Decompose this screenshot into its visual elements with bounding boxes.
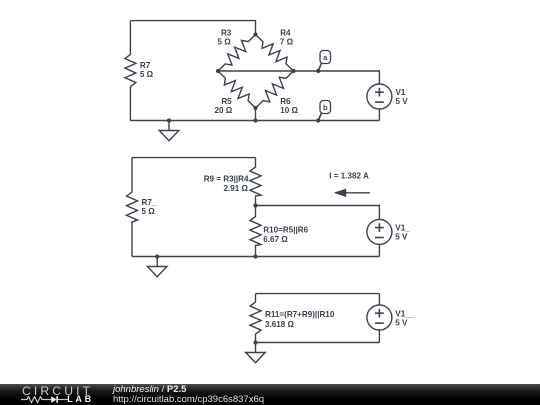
svg-text:R3: R3 (221, 28, 232, 37)
footer bar (0, 384, 540, 405)
svg-text:5 V: 5 V (396, 97, 409, 106)
CircuitLab logo (22, 384, 93, 398)
svg-text:R4: R4 (280, 28, 291, 37)
resistor R11 (250, 294, 335, 343)
resistor R10 (250, 206, 309, 257)
node a (316, 51, 330, 74)
svg-text:7 Ω: 7 Ω (280, 37, 294, 46)
wire (256, 206, 380, 220)
svg-text:I = 1.382 A: I = 1.382 A (329, 171, 369, 180)
svg-text:b: b (323, 103, 328, 112)
ground (147, 254, 167, 276)
svg-text:V1_: V1_ (395, 223, 410, 232)
ground (246, 340, 266, 362)
wire (378, 109, 380, 121)
svg-text:5 Ω: 5 Ω (218, 37, 232, 46)
svg-text:V1__: V1__ (395, 309, 414, 318)
resistor R7_ (127, 158, 157, 257)
svg-text:R7: R7 (140, 61, 151, 70)
wire (130, 21, 255, 35)
svg-text:R5: R5 (221, 97, 232, 106)
resistor R6 (256, 71, 299, 115)
svg-text:5 Ω: 5 Ω (142, 207, 156, 216)
svg-text:R6: R6 (280, 97, 291, 106)
resistor R3 (218, 28, 256, 71)
node junction (253, 203, 257, 258)
resistor R5 (214, 71, 255, 115)
svg-text:R9 = R3||R4: R9 = R3||R4 (204, 175, 249, 184)
credits (113, 384, 186, 395)
ground (159, 118, 179, 140)
voltage source V1__ (367, 305, 415, 330)
wire (378, 330, 380, 343)
svg-text:5 V: 5 V (395, 319, 408, 328)
wire (378, 294, 380, 305)
current arrow I = 1.382 A (329, 171, 370, 197)
svg-text:V1: V1 (396, 88, 406, 97)
wire (218, 70, 294, 72)
voltage source V1 (367, 84, 408, 109)
wire (130, 120, 379, 122)
svg-text:5 V: 5 V (395, 232, 408, 241)
svg-text:R7_: R7_ (142, 198, 157, 207)
svg-text:10 Ω: 10 Ω (280, 106, 298, 115)
voltage source V1_ (367, 219, 410, 244)
resistor R4 (256, 28, 294, 71)
node junction (216, 32, 296, 122)
wire (294, 71, 380, 84)
svg-text:R11=(R7+R9)||R10: R11=(R7+R9)||R10 (265, 310, 335, 319)
node b (316, 101, 330, 123)
resistor R9 (204, 158, 261, 206)
svg-text:R10=R5||R6: R10=R5||R6 (263, 226, 308, 235)
svg-text:3.618 Ω: 3.618 Ω (265, 320, 295, 329)
svg-text:2.91 Ω: 2.91 Ω (224, 184, 249, 193)
svg-text:20 Ω: 20 Ω (214, 106, 232, 115)
svg-text:6.67 Ω: 6.67 Ω (263, 235, 288, 244)
wire (256, 293, 380, 295)
wire (256, 342, 380, 344)
resistor R7 (125, 21, 154, 121)
wire (255, 108, 257, 121)
wire (132, 157, 256, 159)
svg-text:5 Ω: 5 Ω (140, 70, 154, 79)
wire (132, 256, 379, 258)
wire (378, 244, 380, 256)
